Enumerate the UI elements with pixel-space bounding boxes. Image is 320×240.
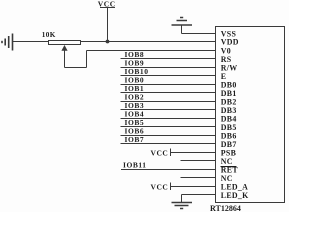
resistor R1 body: [49, 41, 81, 45]
svg-text:IOB11: IOB11: [123, 161, 147, 170]
power port VCC2 to PSB: [171, 149, 216, 157]
ground GND2 (top, above VSS): [172, 18, 193, 34]
wire IOB10 to E: [121, 75, 216, 77]
wire IOB5 to DB5: [121, 126, 216, 128]
wire IOB6 to DB6: [121, 135, 216, 137]
svg-text:IOB7: IOB7: [125, 135, 145, 144]
wire IOB8 to RS: [121, 58, 216, 60]
wire IOB1 to DB1: [121, 92, 216, 94]
wire GND2 to VSS: [182, 33, 216, 35]
ground GND3 (bottom): [172, 203, 193, 209]
wire IOB0 to DB0: [121, 84, 216, 86]
ground GND1 (left, earth): [2, 34, 13, 51]
svg-text:VDD: VDD: [221, 38, 239, 47]
svg-text:VCC: VCC: [151, 149, 169, 158]
svg-text:VCC: VCC: [151, 183, 169, 192]
stub NC pin 16: [181, 160, 216, 162]
IC U1 RT12864 body: [216, 27, 285, 203]
wire IOB7 to DB7: [121, 143, 216, 145]
wiper arrow of R1: [61, 45, 67, 68]
wire IOB3 to DB3: [121, 109, 216, 111]
wire wiper to V0: [65, 51, 216, 68]
power port VCC3 to LED_A: [171, 183, 216, 191]
wire R1 right terminal to VDD rail: [81, 41, 216, 43]
power port VCC1 (top): [100, 8, 115, 42]
pin label RET (active low): [221, 165, 239, 174]
wire IOB9 to R/W: [121, 67, 216, 69]
junction node (VCC / VDD rail): [106, 40, 110, 44]
svg-text:RT12864: RT12864: [210, 204, 241, 212]
wire LED_K to GND3: [182, 195, 216, 203]
wire IOB2 to DB2: [121, 101, 216, 103]
wire IOB11 to RET: [121, 169, 216, 171]
svg-text:VCC: VCC: [98, 0, 116, 9]
stub NC pin 18: [181, 177, 216, 179]
svg-text:10K: 10K: [42, 31, 56, 39]
wire GND1 to R1 left terminal: [13, 41, 49, 43]
wire IOB4 to DB4: [121, 118, 216, 120]
svg-text:LED_K: LED_K: [221, 191, 249, 200]
